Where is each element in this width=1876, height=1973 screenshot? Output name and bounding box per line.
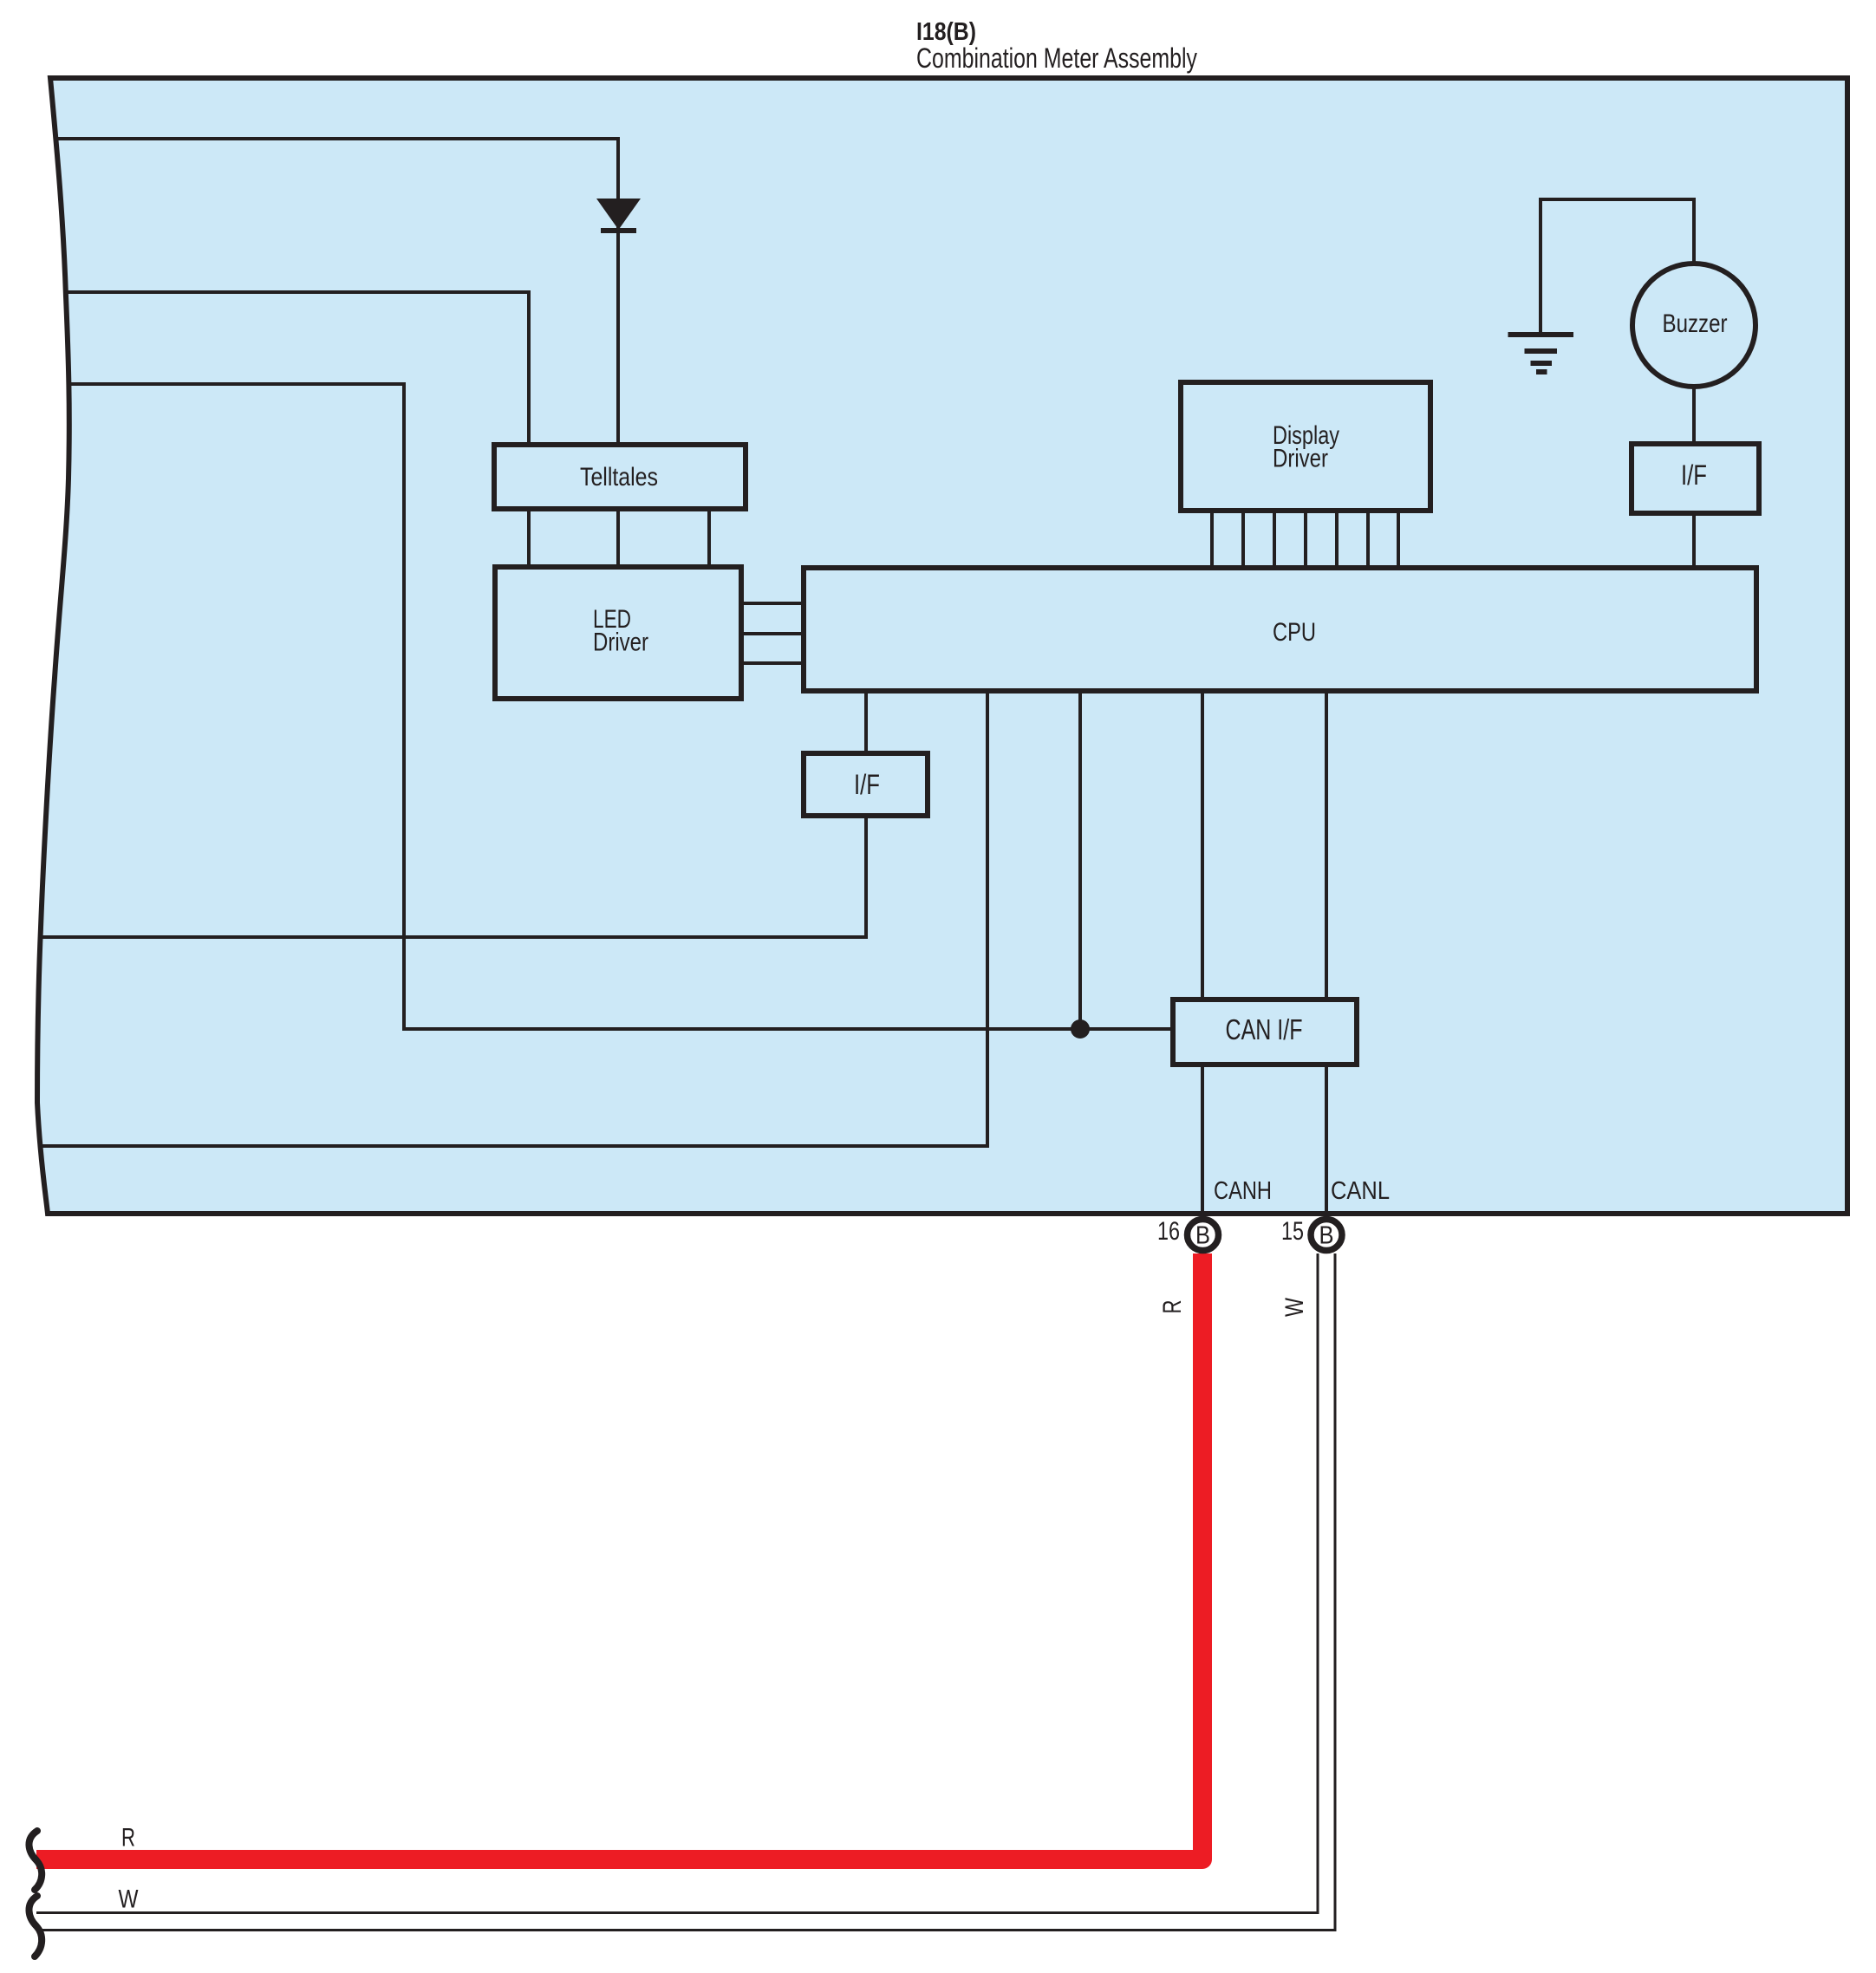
wire CPU down and left to edge (net E) [41,691,987,1146]
component box CPU [804,568,1756,691]
pin 16 (B) [1188,1220,1219,1251]
wire Telltales to LED Driver pin 3 [707,509,711,568]
wire Buzzer to ground [1541,199,1694,333]
component box Display Driver [1181,382,1430,511]
wire Telltales to LED Driver pin 2 [616,509,620,568]
wire from left edge to diode anode (net A) [55,139,618,445]
svg-text:Driver: Driver [593,628,648,657]
wire Buzzer to I/F [1692,387,1696,444]
pin 15 (B) [1311,1220,1342,1251]
wire Telltales to LED Driver pin 1 [527,509,531,568]
component box I/F (buzzer side) [1632,444,1759,513]
wire CANH red (R) to pin 16 [36,1253,1202,1859]
svg-text:W: W [1280,1297,1309,1317]
svg-text:I/F: I/F [854,769,880,800]
component box LED Driver [495,567,741,699]
wire Display Driver pin 4 [1304,511,1307,568]
svg-text:Driver: Driver [1273,445,1328,473]
wire Display Driver pin 2 [1241,511,1245,568]
svg-text:16: 16 [1157,1217,1180,1246]
break symbol on wire W [29,1896,42,1957]
wire CANH from CPU through CAN I/F to pin 16 [1201,691,1204,1214]
wire Display Driver pin 7 [1397,511,1400,568]
ground (chassis ground symbol) [1508,335,1574,372]
wire I/F to CPU [1692,513,1696,568]
wire from left edge down to CAN I/F input (net C) [68,384,1173,1029]
wire CPU to I/F (upper segment) [864,691,868,753]
wire I/F down and left to edge [38,816,866,937]
svg-text:Combination Meter Assembly: Combination Meter Assembly [916,42,1197,74]
svg-text:I/F: I/F [1681,459,1707,491]
wire from left edge to Telltales (net B) [64,292,529,445]
component box Telltales [494,445,746,509]
component box I/F (CPU side) [804,753,928,816]
buzzer B1 [1632,264,1755,387]
wire LED Driver to CPU link 2 [741,632,804,635]
svg-text:W: W [119,1885,140,1914]
component box CAN I/F [1173,1000,1357,1065]
svg-text:B: B [1195,1222,1210,1250]
wire CPU down to junction on net C [1078,691,1082,1029]
wire Display Driver pin 3 [1273,511,1276,568]
svg-text:B: B [1319,1222,1334,1250]
wire Display Driver pin 6 [1366,511,1370,568]
wire CANL white (W) to pin 15 [36,1253,1326,1922]
wire Display Driver pin 5 [1335,511,1339,568]
junction (net C to CPU) [1071,1019,1090,1039]
svg-text:CANL: CANL [1331,1177,1390,1205]
svg-text:CAN I/F: CAN I/F [1226,1013,1303,1045]
svg-text:R: R [1158,1300,1187,1314]
svg-text:CPU: CPU [1273,618,1316,647]
svg-text:Telltales: Telltales [580,463,658,492]
diode D1 (cathode down) [596,199,641,233]
wire Display Driver pin 1 [1210,511,1214,568]
svg-text:CANH: CANH [1214,1177,1272,1205]
wire CANL from CPU through CAN I/F to pin 15 [1325,691,1328,1214]
wire LED Driver to CPU link 1 [741,602,804,605]
svg-text:15: 15 [1281,1217,1304,1246]
break symbol on wire R [29,1831,42,1890]
connector block I18(B) Combination Meter Assembly (shaded body, torn left edge) [37,78,1847,1214]
svg-text:R: R [121,1824,135,1853]
svg-text:Buzzer: Buzzer [1663,309,1728,338]
wire LED Driver to CPU link 3 [741,661,804,665]
